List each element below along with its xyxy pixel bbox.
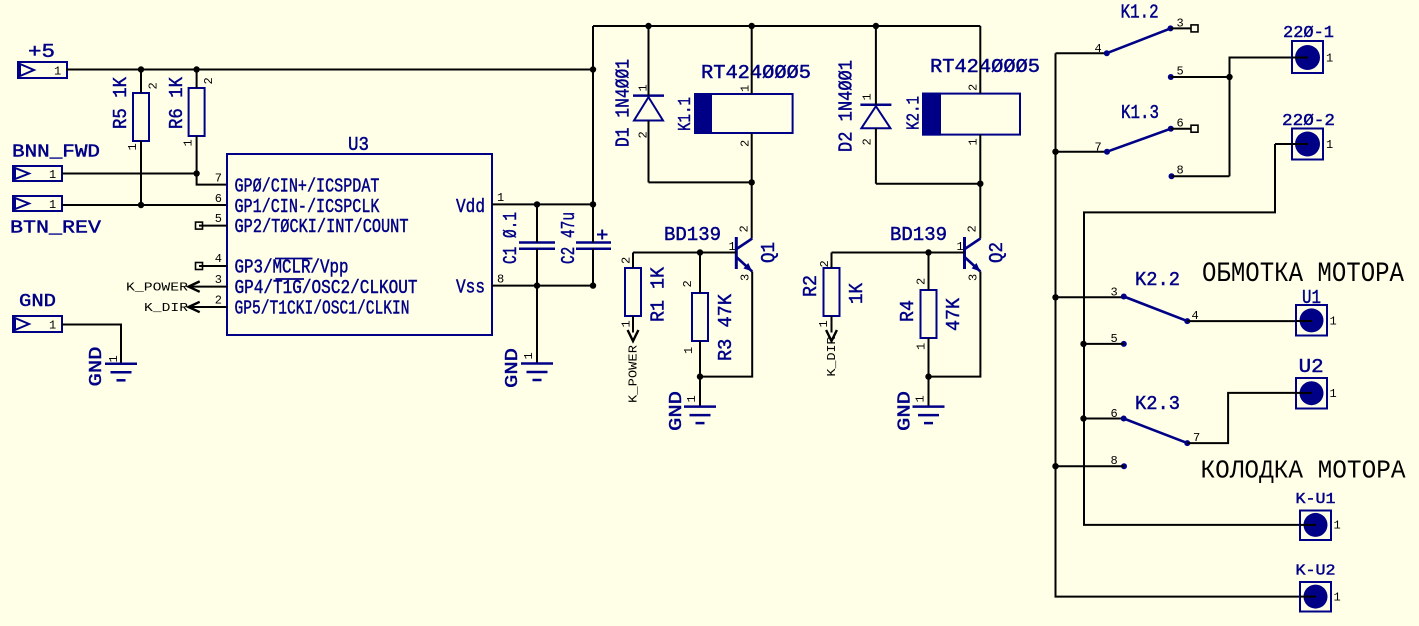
op-amp U3 body (227, 154, 492, 335)
svg-text:GP4/T1G/OSC2/CLKOUT: GP4/T1G/OSC2/CLKOUT (235, 277, 418, 299)
resistor R5 pin 2 number (147, 82, 161, 89)
svg-text:D2 1N4ØØ1: D2 1N4ØØ1 (836, 60, 858, 152)
svg-text:3: 3 (1177, 17, 1184, 31)
svg-text:+5: +5 (28, 41, 55, 63)
wire Q2 base (832, 252, 965, 254)
node junction +5/R6 (193, 66, 199, 72)
relay K2.1 pin 1 number (967, 138, 981, 145)
resistor R1 pin 1 number (620, 320, 634, 327)
ground GND label (Q2) (896, 391, 916, 431)
ground pin 1 number (Q2) (914, 395, 928, 402)
capacitor C2 label (558, 212, 580, 264)
node junction +5/R5 (138, 66, 144, 72)
U3 pin 2 number (215, 294, 222, 308)
ground symbol (Q1) (684, 407, 716, 424)
svg-text:Vdd: Vdd (456, 196, 485, 218)
svg-text:2: 2 (215, 294, 222, 308)
relay K2.1 pin 2 wire (979, 26, 981, 94)
resistor R6 (189, 70, 227, 185)
U3 pin 4 stub (nc) (196, 263, 228, 270)
node junction feedB/K2.3 (1080, 415, 1086, 421)
svg-text:K2.1: K2.1 (905, 96, 925, 130)
node junction Vss/C2 (590, 282, 596, 288)
wire Vss rail (492, 285, 593, 287)
wire K2.3 common (1084, 418, 1124, 420)
U3 pin Vdd name (456, 196, 485, 218)
node K_POWER label (GP4) (126, 281, 188, 295)
svg-text:1: 1 (1334, 519, 1341, 533)
wire BNN_FWD to R6/GP0 (62, 173, 197, 175)
port +5 terminal (18, 62, 67, 79)
wire K1.3 common (1056, 151, 1108, 153)
node junction D1/K1.1/Q1 (749, 179, 755, 185)
svg-text:1: 1 (739, 85, 753, 92)
svg-text:2: 2 (738, 225, 752, 232)
U3 pin GP5 name (235, 298, 410, 320)
svg-text:K_DIR: K_DIR (144, 301, 188, 315)
resistor R5 (133, 70, 149, 206)
svg-text:2: 2 (861, 138, 875, 145)
relay K2.1 pin 1 wire (979, 135, 981, 184)
resistor R4 reference label (897, 300, 919, 322)
wire +5 vertical column (592, 26, 594, 204)
diode D1 pin 1 number (637, 84, 651, 91)
resistor R3 (692, 253, 708, 377)
resistor R1 label (648, 266, 670, 322)
relay K2.3 pin 7 number (1193, 431, 1200, 445)
ground pin 1 number (port) (107, 355, 121, 362)
wire contact feed column B (1084, 144, 1300, 525)
relay K1.1 value RT4240005 (701, 62, 811, 84)
U3 pin 8 number (497, 273, 504, 287)
svg-text:U3: U3 (348, 134, 369, 156)
relay K1.2 pin 5 throw (1168, 74, 1230, 80)
svg-text:1: 1 (914, 395, 928, 402)
svg-text:8: 8 (497, 273, 504, 287)
port BNN_FWD label (12, 143, 100, 163)
ground symbol (Q2) (913, 407, 945, 424)
ground symbol (C1/C2) (521, 364, 553, 381)
svg-text:1: 1 (126, 143, 140, 150)
svg-text:GP3/MCLR/Vpp: GP3/MCLR/Vpp (235, 257, 349, 279)
transistor Q1 pin 1 number (729, 240, 736, 254)
relay contact K1.2 label (1121, 2, 1159, 24)
wire K2.2 common (1056, 296, 1124, 298)
svg-text:6: 6 (215, 192, 222, 206)
ground pin 1 number (C1/C2) (522, 352, 536, 359)
resistor R5 pin 1 number (126, 143, 140, 150)
svg-text:1: 1 (1326, 52, 1333, 66)
svg-text:2: 2 (147, 82, 161, 89)
relay K2.1 value RT4240005 (930, 56, 1040, 78)
wire GND port to ground (62, 325, 121, 364)
svg-text:C2 47u: C2 47u (558, 212, 580, 264)
resistor R2 pin 2 number (818, 260, 832, 267)
wire Q2 emitter (929, 272, 981, 377)
wire to ground (Q2) (928, 377, 930, 407)
relay K2.3 pin 6 number (1111, 407, 1118, 421)
svg-text:1: 1 (49, 198, 56, 212)
svg-text:1: 1 (915, 343, 929, 350)
wire K2.1 to Q2 collector (979, 184, 981, 239)
relay K1.3 pin 6 stub (nc) (1171, 125, 1198, 132)
svg-text:K_DIR: K_DIR (825, 337, 839, 377)
node junction +5 to Vdd column (590, 66, 596, 72)
wire Q1 base (633, 252, 736, 254)
diode D2 pin 2 number (861, 138, 875, 145)
node junction feedA/K2.3pin8 (1052, 463, 1058, 469)
resistor R6 pin 1 number (182, 139, 196, 146)
ground symbol (port GND) (105, 364, 137, 381)
resistor R6 pin 2 number (202, 77, 216, 84)
svg-text:3: 3 (215, 273, 222, 287)
resistor R1 pin 2 number (620, 257, 634, 264)
resistor R2 (824, 253, 840, 333)
svg-text:GND: GND (19, 292, 56, 312)
svg-text:3: 3 (1111, 286, 1118, 300)
svg-text:8: 8 (1177, 164, 1184, 178)
svg-text:BD139: BD139 (890, 224, 947, 246)
diode D2 (860, 26, 891, 184)
capacitor C1 (519, 204, 555, 285)
connector K-U2 label (1296, 563, 1336, 580)
capacitor C2 polarity + (597, 230, 608, 240)
svg-text:GND: GND (667, 391, 687, 431)
node K_POWER label (R1) (627, 345, 641, 403)
resistor R2 value label (846, 282, 868, 304)
U3 pin GP4 name (235, 277, 418, 299)
svg-text:5: 5 (1177, 65, 1184, 79)
diode D1 label (613, 59, 635, 147)
relay K2.2 pin 4 number (1192, 309, 1199, 323)
transistor Q1 pin 2 number (738, 225, 752, 232)
resistor R6 label (166, 76, 188, 129)
svg-text:GP1/CIN-/ICSPCLK: GP1/CIN-/ICSPCLK (235, 196, 380, 218)
relay K2.2 pin 5 number (1111, 332, 1118, 346)
svg-text:R3 47K: R3 47K (715, 293, 737, 361)
svg-text:8: 8 (1111, 454, 1118, 468)
resistor R1 (625, 253, 641, 333)
U3 pin 5 stub (nc) (196, 222, 228, 229)
wire K1.2 common (1056, 52, 1107, 54)
node junction base/R3 (697, 249, 703, 255)
transistor Q2 pin 2 number (966, 225, 980, 232)
U3 pin 7 number (215, 172, 222, 186)
svg-text:1: 1 (1330, 315, 1337, 329)
node junction BTN_REV/R5 (138, 202, 144, 208)
svg-text:R5 1K: R5 1K (110, 76, 132, 129)
capacitor C1 label (500, 212, 522, 264)
relay contact K1.2 blade (1104, 25, 1174, 56)
wire top +5 rail (593, 25, 980, 27)
relay K1.2 pin 3 number (1177, 17, 1184, 31)
svg-text:K2.2: K2.2 (1135, 269, 1180, 291)
wire +5 rail (66, 69, 593, 71)
svg-text:4: 4 (215, 252, 222, 266)
ground GND label (Q1) (667, 391, 687, 431)
U3 pin GP2 name (235, 216, 409, 238)
relay contact K2.3 label (1135, 393, 1180, 415)
U3 pin GP1 name (235, 196, 380, 218)
U3 pin Vss name (456, 277, 485, 299)
svg-text:7: 7 (215, 172, 222, 186)
wire Vdd rail (492, 203, 593, 205)
node junction feedA/K2.2 (1052, 294, 1058, 300)
svg-text:4: 4 (1095, 42, 1102, 56)
svg-text:КОЛОДКА МОТОРА: КОЛОДКА МОТОРА (1201, 456, 1406, 486)
svg-text:1: 1 (1330, 387, 1337, 401)
relay coil K1.1 (695, 94, 793, 133)
svg-text:2: 2 (620, 257, 634, 264)
connector U2 (1296, 378, 1337, 409)
relay K1.1 pin 2 number (739, 140, 753, 147)
connector K-U1 (1300, 511, 1341, 541)
svg-text:2: 2 (202, 77, 216, 84)
svg-text:1: 1 (182, 139, 196, 146)
node junction Vdd/C1 (534, 201, 540, 207)
node K_DIR label (GP5) (144, 301, 188, 315)
svg-text:1: 1 (1326, 138, 1333, 152)
transistor Q2 pin 3 number (967, 274, 981, 281)
svg-text:1: 1 (522, 352, 536, 359)
relay K1.3 pin 8 throw (1169, 173, 1230, 179)
svg-text:1: 1 (682, 347, 696, 354)
resistor R2 pin 1 number (817, 320, 831, 327)
node junction Vss/C1 (534, 282, 540, 288)
wire K1.1 to Q1 collector (751, 182, 753, 238)
port GND terminal (13, 316, 62, 333)
svg-text:BD139: BD139 (664, 224, 721, 246)
U3 pin 3 stub K_POWER arrow (189, 281, 228, 291)
svg-text:Q2: Q2 (986, 242, 1008, 263)
svg-text:6: 6 (1111, 407, 1118, 421)
svg-text:K1.3: K1.3 (1121, 102, 1159, 124)
svg-text:1: 1 (620, 320, 634, 327)
wire 220-1 net (1230, 58, 1293, 177)
svg-text:RT424ØØØ5: RT424ØØØ5 (701, 62, 811, 84)
node K_DIR label (R2) (825, 337, 839, 377)
op-amp U3 reference label (348, 134, 369, 156)
relay K2.3 pin 8 throw (1056, 463, 1128, 469)
transistor Q1 pin 3 number (739, 274, 753, 281)
ground GND label (port) (87, 347, 107, 387)
svg-text:47K: 47K (943, 297, 965, 331)
node junction rail/D2 (873, 23, 879, 29)
wire BTN_REV to GP1 (62, 204, 227, 206)
port +5 label (28, 41, 55, 63)
svg-text:Vss: Vss (456, 277, 485, 299)
resistor R2 reference label (800, 275, 822, 297)
relay contact K2.2 blade (1121, 294, 1191, 325)
diode D2 pin 1 number (861, 93, 875, 100)
svg-text:1: 1 (637, 84, 651, 91)
resistor R3 pin 2 number (681, 280, 695, 287)
svg-text:2: 2 (966, 225, 980, 232)
U3 pin GP3 name (235, 257, 349, 279)
svg-text:1: 1 (1334, 591, 1341, 605)
svg-text:1: 1 (685, 395, 699, 402)
transistor Q1 label (758, 242, 780, 263)
relay K2.1 label (905, 96, 925, 130)
node junction feedB/K2.2pin5 (1080, 341, 1086, 347)
svg-text:1: 1 (967, 138, 981, 145)
node junction R3/emitter/ground (697, 373, 703, 379)
connector 220-1 label (1283, 24, 1334, 43)
svg-text:2: 2 (818, 260, 832, 267)
connector U1 label (1302, 287, 1321, 309)
node junction 220-1/pin5 (1226, 74, 1232, 80)
svg-text:K1.2: K1.2 (1121, 2, 1159, 24)
diode D1 (633, 26, 664, 182)
port BTN_REV terminal (13, 196, 62, 212)
wire Vss to ground (536, 286, 538, 364)
heading OBMOTKA MOTORA (1202, 259, 1404, 290)
transistor Q2 BD139 type label (890, 224, 947, 246)
wire 220-2 stub (1275, 143, 1292, 145)
svg-text:2: 2 (739, 140, 753, 147)
svg-text:K-U1: K-U1 (1296, 491, 1336, 508)
node junction D2/K2.1/Q2 (977, 181, 983, 187)
relay K1.1 pin 2 wire (751, 133, 753, 182)
svg-text:5: 5 (1111, 332, 1118, 346)
relay K1.2 pin 3 stub (nc) (1171, 25, 1199, 32)
transistor Q1 BD139 type label (664, 224, 721, 246)
connector K-U1 label (1296, 491, 1336, 508)
wire D2 to K2.1 bottom (876, 183, 980, 185)
svg-text:K1.1: K1.1 (676, 97, 696, 131)
port BTN_REV label (10, 219, 101, 239)
wire D1 to K1.1 bottom (649, 181, 752, 183)
svg-text:ОБМОТКА МОТОРА: ОБМОТКА МОТОРА (1202, 259, 1404, 290)
node junction rail/K1.1 (749, 23, 755, 29)
svg-text:Q1: Q1 (758, 242, 780, 263)
relay contact K1.3 blade (1104, 126, 1174, 155)
relay K2.2 pin 3 number (1111, 286, 1118, 300)
svg-text:2: 2 (681, 280, 695, 287)
node junction R4/emitter/ground (925, 373, 931, 379)
svg-text:GND: GND (87, 347, 107, 387)
svg-text:D1 1N4ØØ1: D1 1N4ØØ1 (613, 59, 635, 147)
svg-text:R4: R4 (897, 300, 919, 322)
svg-text:3: 3 (739, 274, 753, 281)
svg-text:BTN_REV: BTN_REV (10, 219, 101, 239)
connector 220-2 (1292, 129, 1333, 160)
resistor R3 label (715, 293, 737, 361)
relay contact K2.2 label (1135, 269, 1180, 291)
relay K1.1 label (676, 97, 696, 131)
terminal K_POWER arrow (R1) (628, 330, 639, 341)
svg-text:1: 1 (49, 168, 56, 182)
wire Q1 emitter (700, 272, 752, 377)
svg-text:7: 7 (1095, 141, 1102, 155)
relay K1.1 pin 1 number (739, 85, 753, 92)
svg-text:K-U2: K-U2 (1296, 563, 1336, 580)
wire contact feed column A (1056, 53, 1301, 596)
node junction Vdd/C2 column (590, 201, 596, 207)
svg-text:RT424ØØØ5: RT424ØØØ5 (930, 56, 1040, 78)
resistor R4 (921, 253, 937, 377)
svg-text:GP5/T1CKI/OSC1/CLKIN: GP5/T1CKI/OSC1/CLKIN (235, 298, 410, 320)
svg-text:1K: 1K (846, 282, 868, 304)
relay K1.3 pin 8 number (1177, 164, 1184, 178)
terminal K_DIR arrow (R2) (826, 330, 837, 341)
diode D2 label (836, 60, 858, 152)
relay K1.3 pin 6 number (1177, 117, 1184, 131)
svg-text:K2.3: K2.3 (1135, 393, 1180, 415)
node junction feedA/K1.3 (1052, 149, 1058, 155)
connector U2 label (1299, 356, 1324, 378)
U3 pin 5 number (215, 212, 222, 226)
svg-text:3: 3 (967, 274, 981, 281)
connector K-U2 (1300, 582, 1341, 612)
port BNN_FWD terminal (13, 166, 62, 182)
U3 pin 2 stub K_DIR arrow (189, 302, 228, 312)
svg-text:1: 1 (497, 191, 504, 205)
connector 220-1 (1292, 41, 1333, 73)
svg-text:BNN_FWD: BNN_FWD (12, 143, 100, 163)
resistor R4 pin 2 number (915, 278, 929, 285)
relay contact K1.3 label (1121, 102, 1159, 124)
svg-text:2: 2 (915, 278, 929, 285)
U3 pin GP0 name (235, 176, 380, 198)
heading KOLODKA MOTORA (1201, 456, 1406, 486)
wire K2.2 pin4 to U1 (1187, 320, 1296, 322)
relay contact K2.3 blade (1121, 416, 1191, 447)
svg-text:2: 2 (967, 84, 981, 91)
relay K1.2 pin 4 number (1095, 42, 1102, 56)
relay K2.2 pin 5 throw (1084, 341, 1127, 347)
svg-text:1: 1 (54, 65, 61, 79)
svg-text:U2: U2 (1299, 356, 1324, 378)
node junction BNN_FWD/R6 (193, 170, 199, 176)
U3 pin 3 number (215, 273, 222, 287)
svg-text:R2: R2 (800, 275, 822, 297)
U3 pin 1 number (497, 191, 504, 205)
connector U1 (1296, 305, 1337, 336)
transistor Q2 pin 1 number (957, 240, 964, 254)
svg-text:2: 2 (637, 131, 651, 138)
diode D1 pin 2 number (637, 131, 651, 138)
relay K1.2 pin 5 number (1177, 65, 1184, 79)
svg-text:6: 6 (1177, 117, 1184, 131)
relay K2.3 pin 8 number (1111, 454, 1118, 468)
port GND label (19, 292, 56, 312)
svg-text:GP2/TØCKI/INT/COUNT: GP2/TØCKI/INT/COUNT (235, 216, 409, 238)
connector 220-2 label (1282, 112, 1335, 131)
relay K2.1 pin 2 number (967, 84, 981, 91)
U3 pin 4 number (215, 252, 222, 266)
svg-text:K_POWER: K_POWER (627, 345, 641, 403)
svg-text:R1 1K: R1 1K (648, 266, 670, 322)
svg-text:1: 1 (817, 320, 831, 327)
resistor R3 pin 1 number (682, 347, 696, 354)
wire to ground (Q1) (699, 377, 701, 407)
relay coil K2.1 (923, 94, 1020, 135)
svg-text:C1 Ø.1: C1 Ø.1 (500, 212, 522, 264)
resistor R4 value label (943, 297, 965, 331)
svg-text:1: 1 (107, 355, 121, 362)
relay K1.3 pin 7 number (1095, 141, 1102, 155)
wire K2.3 pin7 to U2 (1187, 393, 1296, 443)
svg-text:5: 5 (215, 212, 222, 226)
resistor R5 label (110, 76, 132, 129)
svg-text:1: 1 (49, 319, 56, 333)
capacitor C2 (576, 204, 611, 285)
svg-text:R6 1K: R6 1K (166, 76, 188, 129)
resistor R4 pin 1 number (915, 343, 929, 350)
svg-text:1: 1 (861, 93, 875, 100)
U3 pin 6 number (215, 192, 222, 206)
